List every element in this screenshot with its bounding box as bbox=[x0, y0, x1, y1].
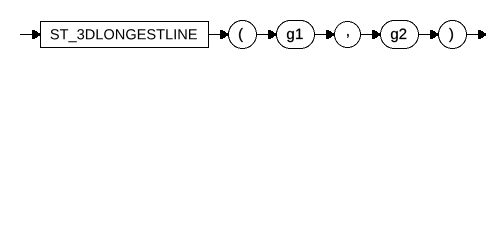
wire: g2 to ) bbox=[419, 34, 430, 36]
wire: comma to g2 bbox=[361, 34, 372, 36]
box: function name ST_3DLONGESTLINE bbox=[41, 22, 209, 48]
arrowhead into ) bbox=[430, 30, 438, 39]
oval: literal ) bbox=[439, 21, 467, 49]
oval: literal comma bbox=[335, 22, 361, 48]
arrowhead into g2 bbox=[372, 30, 380, 39]
arrowhead exit bbox=[478, 30, 486, 39]
label ) bbox=[449, 28, 453, 42]
wire: exit line bbox=[467, 34, 478, 36]
oval: parameter g1 bbox=[277, 21, 315, 49]
label , bbox=[347, 34, 348, 38]
oval: parameter g2 bbox=[381, 21, 419, 49]
arrowhead into comma bbox=[326, 30, 334, 39]
wire: box to ( bbox=[209, 34, 220, 36]
label ST_3DLONGESTLINE bbox=[51, 29, 197, 42]
label g1 bbox=[287, 29, 303, 42]
arrowhead into function box bbox=[32, 30, 40, 39]
oval: literal ( bbox=[229, 21, 257, 49]
wire: g1 to comma bbox=[315, 34, 326, 36]
wire: entry line bbox=[20, 34, 32, 36]
label g2 bbox=[391, 29, 406, 43]
arrowhead into g1 bbox=[268, 30, 276, 39]
arrowhead into ( bbox=[220, 30, 228, 39]
wire: ( to g1 bbox=[257, 34, 268, 36]
label ( bbox=[239, 28, 243, 42]
